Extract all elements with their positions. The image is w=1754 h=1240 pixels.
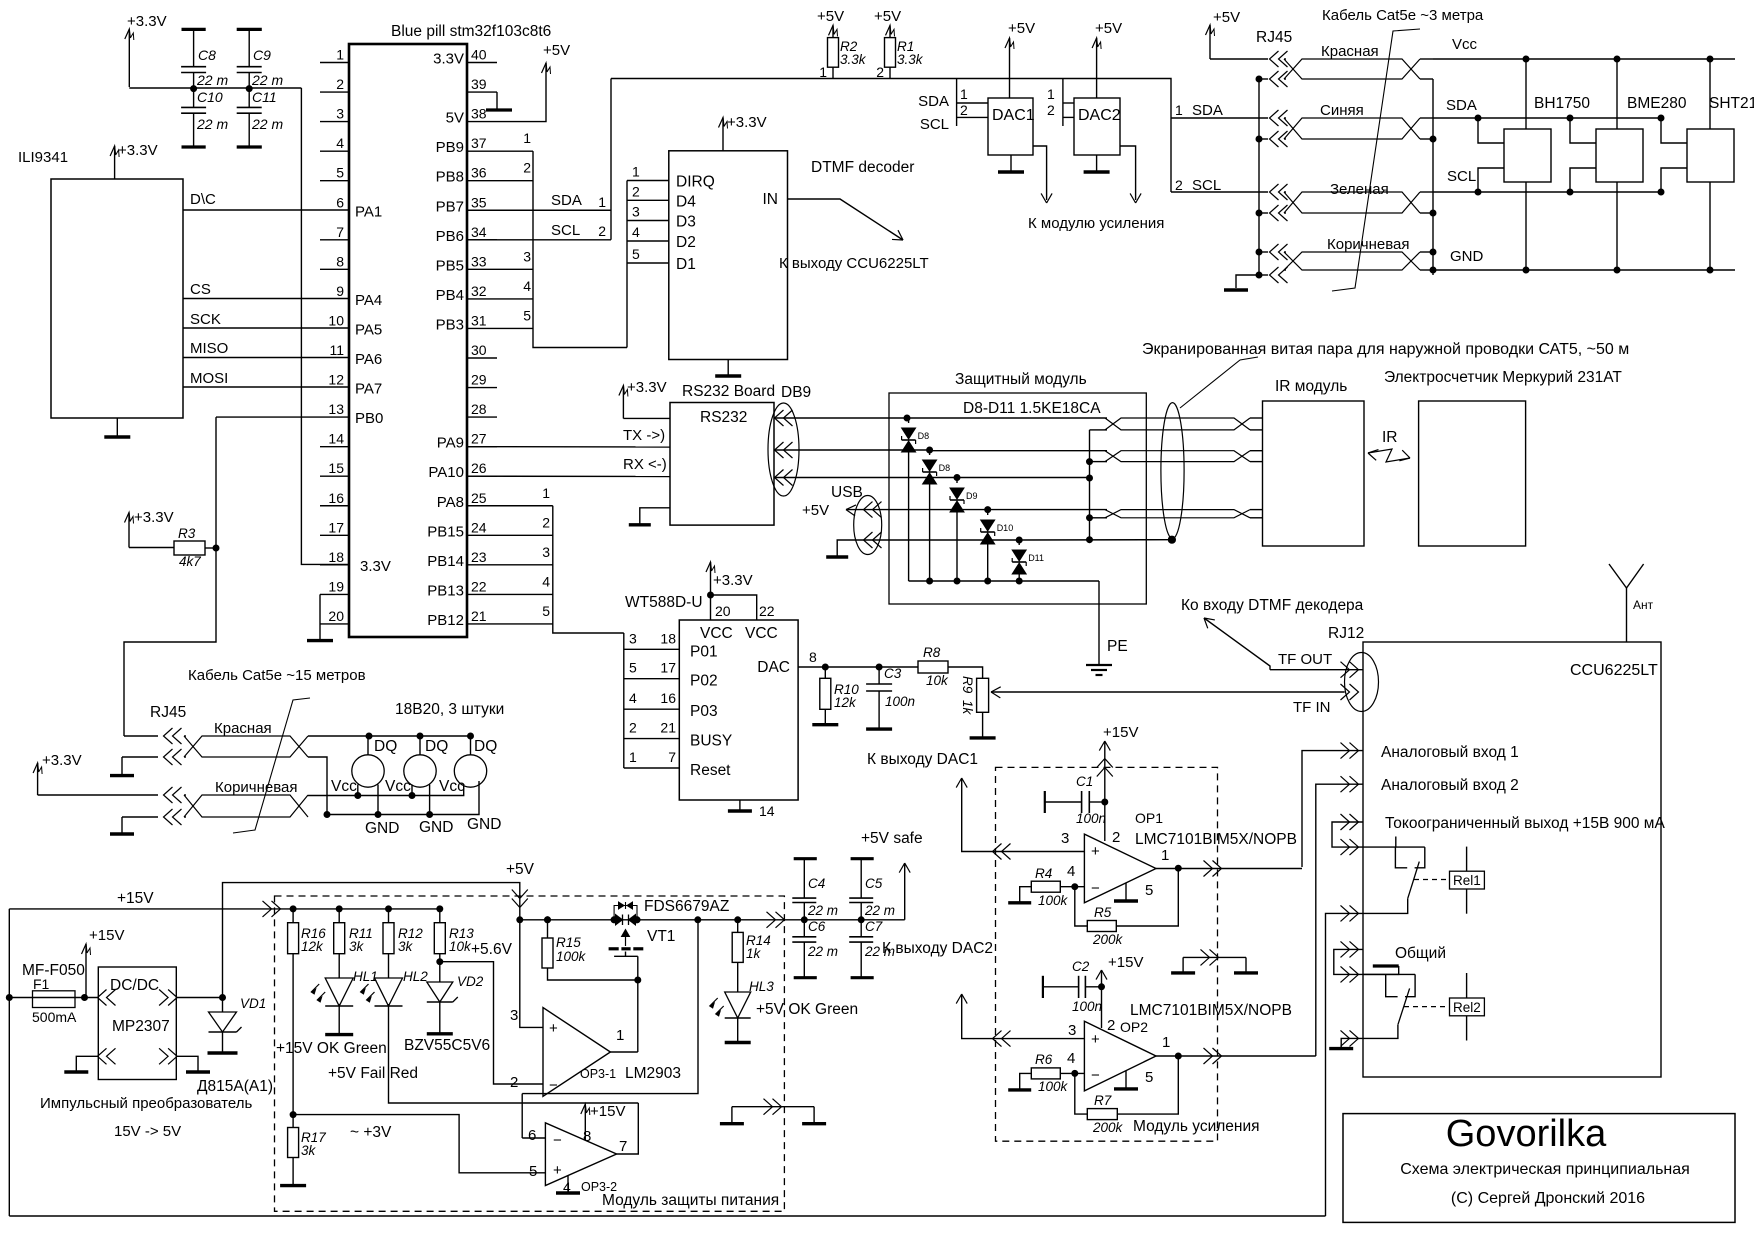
wire pin 25 to connector pin 1 <box>497 505 553 507</box>
svg-text:RJ12: RJ12 <box>1328 625 1364 642</box>
power +3.3V (R3) <box>128 513 130 548</box>
pin 22 (blue pill right) <box>467 593 497 595</box>
svg-text:PB5: PB5 <box>436 257 464 274</box>
pin 24 (blue pill right) <box>467 534 497 536</box>
twisted pair A to IR (TX) <box>1090 429 1106 431</box>
ground (RJ45 top) <box>1236 275 1259 288</box>
svg-text:C5: C5 <box>865 876 883 891</box>
ground (brown pair) <box>121 817 123 834</box>
svg-text:36: 36 <box>471 165 487 181</box>
svg-text:22 m: 22 m <box>196 116 228 132</box>
ic RS232 Board <box>670 403 774 526</box>
ground (DC/DC out) <box>176 1056 198 1072</box>
svg-text:−: − <box>553 1132 562 1149</box>
pin 15 (blue pill left) <box>320 475 349 477</box>
svg-text:10k: 10k <box>926 673 949 688</box>
svg-text:D11: D11 <box>1028 553 1044 563</box>
wire +15V main <box>9 908 440 910</box>
opamp OP3-2 LM2903 <box>545 1123 616 1186</box>
pin P01 (WT588) <box>624 648 680 650</box>
svg-text:+5V: +5V <box>1095 20 1122 37</box>
svg-text:PA5: PA5 <box>355 321 382 338</box>
svg-text:IR: IR <box>1382 429 1398 446</box>
svg-text:DB9: DB9 <box>781 384 811 401</box>
pin 33 (blue pill right) <box>467 268 497 270</box>
svg-text:DAC1: DAC1 <box>992 107 1035 124</box>
antenna <box>1626 588 1628 642</box>
svg-text:Электросчетчик Меркурий 231АТ: Электросчетчик Меркурий 231АТ <box>1384 369 1622 386</box>
svg-text:+3.3V: +3.3V <box>134 509 174 526</box>
pin 17 (blue pill left) <box>320 534 349 536</box>
module box Modul zashchity pitaniya (dashed) <box>275 896 785 1211</box>
wire OP2 output <box>1156 1055 1316 1057</box>
pin D3 (DTMF) <box>627 220 669 222</box>
svg-text:3: 3 <box>629 630 637 646</box>
dcdc converter MP2307 <box>98 967 176 1080</box>
svg-text:1: 1 <box>960 86 968 102</box>
svg-text:P02: P02 <box>690 673 718 690</box>
svg-text:(С) Сергей Дронский 2016: (С) Сергей Дронский 2016 <box>1451 1190 1645 1207</box>
capacitor C5 <box>851 857 874 860</box>
svg-text:+5V: +5V <box>1008 20 1035 37</box>
svg-text:2: 2 <box>510 1074 518 1091</box>
svg-text:Vcc: Vcc <box>331 778 357 795</box>
opamp OP1 LMC7101 <box>1084 834 1156 903</box>
wire pin 33 to connector pin 3 <box>497 268 533 270</box>
wire SCL bus <box>1433 191 1661 193</box>
svg-text:3k: 3k <box>398 939 414 954</box>
svg-text:GND: GND <box>467 816 501 833</box>
pin 37 (blue pill right) <box>467 150 497 152</box>
pin 16 (blue pill left) <box>320 505 349 507</box>
wire I2C link to bus <box>610 79 612 240</box>
wire OP3-2 output <box>617 1103 639 1154</box>
wire DB9 line 2 <box>774 449 930 451</box>
svg-text:К выходу DAC2: К выходу DAC2 <box>882 940 993 957</box>
svg-text:34: 34 <box>471 224 487 240</box>
wire DAC1 output arrow <box>1033 146 1047 200</box>
svg-text:Ант: Ант <box>1633 598 1654 612</box>
svg-text:PB4: PB4 <box>436 287 464 304</box>
resistor R11 3k <box>336 906 342 912</box>
svg-text:OP1: OP1 <box>1135 810 1163 826</box>
svg-text:PB12: PB12 <box>427 612 464 629</box>
svg-text:3.3k: 3.3k <box>840 52 867 67</box>
svg-text:BME280: BME280 <box>1627 95 1687 112</box>
ic WT588D-U <box>679 620 798 800</box>
wire pin 31 to connector pin 5 <box>497 327 533 329</box>
svg-text:C11: C11 <box>252 89 277 105</box>
sensor SHT21 <box>1687 129 1734 182</box>
svg-text:DQ: DQ <box>425 738 448 755</box>
pin 1 (blue pill left) <box>320 62 349 64</box>
svg-text:100k: 100k <box>1038 1079 1069 1094</box>
svg-text:3.3V: 3.3V <box>433 51 464 68</box>
svg-text:21: 21 <box>471 608 487 624</box>
pin TF OUT <box>1270 669 1363 671</box>
pin TF IN <box>1341 684 1350 700</box>
svg-text:Экранированная витая пара для: Экранированная витая пара для наружной п… <box>1142 341 1629 358</box>
svg-text:PB9: PB9 <box>436 139 464 156</box>
svg-text:+15V: +15V <box>1103 724 1138 741</box>
svg-text:+5V: +5V <box>874 8 901 25</box>
svg-text:4: 4 <box>523 278 531 294</box>
svg-text:+5.6V: +5.6V <box>471 941 513 958</box>
svg-text:8: 8 <box>809 649 817 665</box>
twisted pair SCL green <box>1171 191 1268 193</box>
tvs diode D8 <box>927 447 933 453</box>
pin 20 (blue pill left) <box>320 623 349 625</box>
svg-text:MF-F050: MF-F050 <box>22 962 85 979</box>
svg-text:USB: USB <box>831 484 863 501</box>
svg-text:HL2: HL2 <box>403 969 428 984</box>
svg-text:LMC7101BIM5X/NOPB: LMC7101BIM5X/NOPB <box>1130 1002 1292 1019</box>
ground earth PE <box>1086 664 1112 666</box>
svg-text:Модуль защиты питания: Модуль защиты питания <box>602 1192 779 1209</box>
svg-text:1: 1 <box>523 130 531 146</box>
svg-text:PE: PE <box>1107 638 1128 655</box>
svg-text:VCC: VCC <box>700 625 733 642</box>
wire PE to earth <box>1098 581 1100 665</box>
wire D\C net <box>183 209 349 211</box>
svg-text:22 m: 22 m <box>251 72 283 88</box>
svg-text:C7: C7 <box>865 919 883 934</box>
svg-text:+5V: +5V <box>817 8 844 25</box>
svg-text:PB14: PB14 <box>427 553 464 570</box>
pin 13 (blue pill left) <box>216 416 349 418</box>
wire R17 +3V node <box>290 1112 296 1118</box>
svg-text:DIRQ: DIRQ <box>676 174 715 191</box>
svg-text:5: 5 <box>632 246 640 262</box>
pin 38 (blue pill right) <box>467 121 497 123</box>
svg-text:VCC: VCC <box>745 625 778 642</box>
svg-text:PA7: PA7 <box>355 381 382 398</box>
svg-text:7: 7 <box>668 749 676 765</box>
led HL2 <box>375 978 403 1006</box>
svg-text:TF IN: TF IN <box>1293 699 1331 716</box>
resistor R12 3k <box>386 906 392 912</box>
pin 31 (blue pill right) <box>467 327 497 329</box>
svg-text:VD2: VD2 <box>457 974 484 989</box>
wire OP2 + input from DAC2 <box>962 994 1085 1039</box>
svg-text:D8-D11 1.5KE18CA: D8-D11 1.5KE18CA <box>963 400 1101 417</box>
svg-text:Коричневая: Коричневая <box>1327 236 1410 253</box>
twisted pair SDA blue <box>1171 117 1268 119</box>
wire pin 36 to connector pin 2 <box>497 180 533 182</box>
pin GND 14 (WT588) <box>739 800 741 811</box>
svg-text:20: 20 <box>715 603 731 619</box>
svg-text:7: 7 <box>336 224 344 240</box>
capacitor C9 <box>237 28 262 31</box>
wire pin 24 to connector pin 2 <box>497 534 553 536</box>
svg-text:24: 24 <box>471 519 487 535</box>
svg-text:RS232 Board: RS232 Board <box>682 383 775 400</box>
svg-text:C6: C6 <box>808 919 826 934</box>
controller CCU6225LT box <box>1363 642 1661 1077</box>
opamp OP2 LMC7101 <box>1084 1021 1156 1091</box>
svg-text:D3: D3 <box>676 214 696 231</box>
svg-text:21: 21 <box>660 720 676 736</box>
wire TVS ground bus <box>909 580 1099 582</box>
svg-text:C1: C1 <box>1076 774 1093 789</box>
pin 36 (blue pill right) <box>467 180 497 182</box>
pin 23 (blue pill right) <box>467 564 497 566</box>
svg-text:RJ45: RJ45 <box>1256 29 1292 46</box>
svg-text:К модулю усиления: К модулю усиления <box>1028 215 1164 232</box>
svg-text:SCL: SCL <box>551 222 580 239</box>
svg-text:C3: C3 <box>884 666 902 681</box>
svg-text:Синяя: Синяя <box>1320 102 1364 119</box>
led HL3 <box>725 992 751 1018</box>
svg-text:1: 1 <box>598 194 606 210</box>
pin DIRQ (DTMF) <box>627 180 669 182</box>
svg-text:DAC: DAC <box>757 659 790 676</box>
svg-text:22 m: 22 m <box>864 944 895 959</box>
svg-text:PA8: PA8 <box>437 494 464 511</box>
svg-text:−: − <box>549 1077 558 1094</box>
svg-text:SCL: SCL <box>920 116 949 133</box>
svg-text:PA4: PA4 <box>355 292 382 309</box>
svg-text:+5V: +5V <box>802 502 829 519</box>
resistor R16 12k <box>290 906 296 912</box>
svg-text:+15V OK Green: +15V OK Green <box>276 1040 387 1057</box>
pin D2 (DTMF) <box>627 240 669 242</box>
module box Zashchitny modul <box>889 393 1146 604</box>
wire +3.3V to caps junction <box>129 87 301 89</box>
svg-text:R8: R8 <box>923 645 941 660</box>
svg-text:D2: D2 <box>676 234 696 251</box>
svg-text:OP2: OP2 <box>1120 1019 1148 1035</box>
wire Vcc bus 18B20 <box>308 784 464 796</box>
svg-text:+5V Fail Red: +5V Fail Red <box>328 1065 418 1082</box>
pin common with U loop <box>1334 949 1363 974</box>
sensor 18B20 #1 <box>352 755 384 787</box>
svg-text:RS232: RS232 <box>700 409 747 426</box>
svg-text:R9: R9 <box>960 676 975 694</box>
svg-text:+5V safe: +5V safe <box>861 830 923 847</box>
svg-text:Красная: Красная <box>214 720 272 737</box>
ground (Rel2 pin) <box>1341 1038 1363 1048</box>
wire PA10 RX to RS232 <box>467 475 670 477</box>
svg-text:OP3-2: OP3-2 <box>581 1180 617 1194</box>
pin analog input 2 <box>1316 784 1363 1056</box>
svg-text:+3.3V: +3.3V <box>627 379 667 396</box>
svg-text:R7: R7 <box>1094 1093 1112 1108</box>
svg-text:10k: 10k <box>449 939 472 954</box>
relay contact Rel1 <box>1363 846 1425 848</box>
ic DTMF decoder <box>669 151 788 360</box>
svg-text:2: 2 <box>632 183 640 199</box>
svg-text:Vcc: Vcc <box>1452 36 1478 53</box>
svg-text:16: 16 <box>660 690 676 706</box>
svg-text:Коричневая: Коричневая <box>215 779 298 796</box>
svg-text:2: 2 <box>629 720 637 736</box>
power +3.3V (RS232) <box>623 417 670 419</box>
svg-text:1: 1 <box>616 1027 624 1044</box>
sensor BH1750 <box>1504 129 1551 182</box>
svg-text:20: 20 <box>328 608 344 624</box>
pin 26 (blue pill right) <box>467 475 497 477</box>
trimmer R9 1k <box>977 678 989 712</box>
svg-text:Reset: Reset <box>690 762 731 779</box>
svg-text:Схема электрическая принципиал: Схема электрическая принципиальная <box>1400 1161 1690 1178</box>
svg-text:C8: C8 <box>198 47 216 63</box>
connector to DTMF (pins 37-31) bracket <box>533 151 627 347</box>
svg-text:SDA: SDA <box>1192 102 1223 119</box>
svg-text:4: 4 <box>1067 863 1075 880</box>
rj45 left rail <box>1258 79 1260 275</box>
svg-text:30: 30 <box>471 342 487 358</box>
svg-text:22 m: 22 m <box>196 72 228 88</box>
svg-text:PB6: PB6 <box>436 228 464 245</box>
svg-text:DTMF decoder: DTMF decoder <box>811 159 914 176</box>
module box IR <box>1263 401 1365 546</box>
svg-text:LMC7101BIM5X/NOPB: LMC7101BIM5X/NOPB <box>1135 831 1297 848</box>
svg-text:R4: R4 <box>1035 866 1052 881</box>
svg-text:~ +3V: ~ +3V <box>350 1124 392 1141</box>
wire SCK net <box>183 327 349 329</box>
module box Modul usileniya (dashed) <box>996 767 1218 1141</box>
wire pin 37 to connector pin 1 <box>497 150 533 152</box>
svg-text:+5V: +5V <box>543 42 570 59</box>
svg-text:3: 3 <box>542 544 550 560</box>
svg-text:29: 29 <box>471 372 487 388</box>
pin 4 (blue pill left) <box>320 150 349 152</box>
annotation line cable 2 <box>233 698 310 833</box>
svg-text:2: 2 <box>1107 1017 1115 1034</box>
svg-text:27: 27 <box>471 431 487 447</box>
pin 21 (blue pill right) <box>467 623 497 625</box>
wire PA9 TX to RS232 <box>467 446 670 448</box>
power +5V (DAC2) <box>1096 38 1098 98</box>
wire TF IN wiper <box>991 691 1345 693</box>
resistor R6 100k <box>1031 1068 1060 1079</box>
power +5V (RJ45 top) <box>1209 25 1211 59</box>
power +5V (R2) <box>832 24 834 26</box>
dac DAC2 <box>1074 98 1120 155</box>
svg-text:1: 1 <box>1175 102 1183 118</box>
svg-text:Зеленая: Зеленая <box>1330 181 1389 198</box>
wire MISO net <box>183 357 349 359</box>
svg-text:SHT21: SHT21 <box>1709 95 1754 112</box>
svg-text:12: 12 <box>328 372 344 388</box>
svg-text:1: 1 <box>629 749 637 765</box>
wire pin 32 to connector pin 4 <box>497 298 533 300</box>
svg-text:38: 38 <box>471 106 487 122</box>
svg-text:+5V: +5V <box>506 861 535 878</box>
pin D4 (DTMF) <box>627 199 669 201</box>
pin P02 (WT588) <box>624 678 680 680</box>
svg-text:5: 5 <box>629 660 637 676</box>
svg-text:MP2307: MP2307 <box>112 1018 170 1035</box>
pin BUSY (WT588) <box>624 738 680 740</box>
svg-text:6: 6 <box>336 194 344 210</box>
svg-text:13: 13 <box>328 401 344 417</box>
svg-text:1k: 1k <box>746 946 762 961</box>
svg-text:+: + <box>549 1020 558 1037</box>
ground (DAC2) <box>1096 155 1098 172</box>
svg-text:R3: R3 <box>178 526 196 541</box>
ground link amp-CCU <box>1183 956 1246 958</box>
svg-text:11: 11 <box>329 342 344 358</box>
wire OP3-1 output <box>610 1051 637 1053</box>
pin 32 (blue pill right) <box>467 298 497 300</box>
svg-text:PB8: PB8 <box>436 169 464 186</box>
wire CS net <box>183 298 349 300</box>
svg-text:5: 5 <box>336 165 344 181</box>
svg-text:+: + <box>1091 843 1100 860</box>
svg-text:100k: 100k <box>556 949 587 964</box>
svg-text:22 m: 22 m <box>864 903 895 918</box>
svg-text:Кабель Cat5e ~3 метра: Кабель Cat5e ~3 метра <box>1322 7 1484 24</box>
power +5V (pin38) <box>497 63 546 122</box>
svg-text:+: + <box>1091 1031 1100 1048</box>
svg-text:1k: 1k <box>960 700 975 716</box>
svg-text:Д815А(А1): Д815А(А1) <box>197 1078 273 1095</box>
resistor R14 1k <box>737 920 739 933</box>
resistor R5 200k <box>1075 887 1088 926</box>
svg-text:2: 2 <box>1047 102 1055 118</box>
svg-text:WT588D-U: WT588D-U <box>625 594 703 611</box>
twisted pair C to IR (5V) <box>1090 517 1106 519</box>
svg-text:2: 2 <box>960 102 968 118</box>
power +15V (OP1) <box>1104 741 1106 841</box>
svg-text:SDA: SDA <box>551 192 582 209</box>
svg-text:5: 5 <box>523 307 531 323</box>
svg-text:C10: C10 <box>197 89 223 105</box>
svg-text:+: + <box>553 1162 562 1179</box>
pin D1 (DTMF) <box>627 262 669 264</box>
pin 7 (blue pill left) <box>320 239 349 241</box>
wire RS232 TX into module <box>909 417 1105 419</box>
svg-text:+3.3V: +3.3V <box>727 114 767 131</box>
svg-text:100n: 100n <box>885 694 915 709</box>
svg-text:17: 17 <box>660 660 676 676</box>
svg-text:4k7: 4k7 <box>179 554 201 569</box>
svg-text:1: 1 <box>1161 847 1169 864</box>
svg-text:2: 2 <box>1175 177 1183 193</box>
wire RS232 GND into module <box>957 477 1090 479</box>
svg-text:D\C: D\C <box>190 191 216 208</box>
relay coil Rel1 <box>1466 847 1468 872</box>
wire I2C bus <box>611 78 1170 80</box>
svg-text:12k: 12k <box>301 939 324 954</box>
svg-text:Vcc: Vcc <box>385 778 411 795</box>
svg-text:MOSI: MOSI <box>190 370 228 387</box>
connector RJ12 ellipse <box>1345 653 1379 712</box>
capacitor C1 100n <box>1102 799 1108 805</box>
svg-text:15: 15 <box>328 460 344 476</box>
power +3.3V (ILI9341) <box>114 146 116 179</box>
svg-text:GND: GND <box>419 819 453 836</box>
wire SCL (PB6) <box>467 239 611 241</box>
svg-text:IN: IN <box>763 191 779 208</box>
svg-text:19: 19 <box>328 578 344 594</box>
annotation line cable <box>1332 29 1420 291</box>
connector USB ellipse <box>854 496 882 555</box>
svg-text:1: 1 <box>632 164 640 180</box>
svg-text:3k: 3k <box>301 1143 317 1158</box>
ground link power module <box>732 1106 814 1108</box>
svg-text:P01: P01 <box>690 643 718 660</box>
ground (OP1 pin5) <box>1125 883 1127 901</box>
wire pin 21 to connector pin 5 <box>497 623 553 625</box>
power +3.3V (caps rail) <box>128 29 130 87</box>
capacitor C4 <box>794 857 817 860</box>
ground (RS232) <box>640 508 670 524</box>
svg-text:+15V: +15V <box>89 927 124 944</box>
mcu module Blue pill stm32f103c8t6 <box>349 44 467 637</box>
